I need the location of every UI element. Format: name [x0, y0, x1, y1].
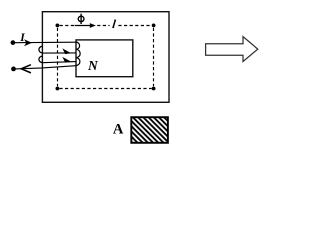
coil window bump 3: [76, 58, 80, 66]
coil outer arc 1: [39, 46, 43, 53]
terminal dot top: [11, 40, 16, 45]
flux direction arrow: [75, 25, 91, 27]
terminal dot bottom: [11, 67, 16, 72]
wire: coil turn 2: [43, 52, 77, 54]
wire: output lead bottom: [15, 66, 76, 69]
arrowhead turn 2: [62, 48, 71, 54]
label l (mean path length): [111, 17, 117, 31]
mean flux path dashed rectangle: [58, 26, 154, 89]
wire: input lead top: [15, 41, 77, 44]
node dot top-left of flux path: [56, 24, 60, 28]
current arrow into coil: [24, 39, 32, 46]
phi label: [78, 14, 84, 24]
coil outer arc 2: [39, 56, 43, 63]
node dot bottom-right of flux path: [152, 87, 156, 91]
core window rectangle: [76, 40, 133, 77]
block arrow pointing right: [206, 37, 258, 62]
svg-text:A: A: [113, 121, 124, 137]
coil window bump 2: [76, 49, 80, 57]
arrowhead turn 3: [62, 57, 71, 63]
node dot top-right of flux path: [152, 24, 156, 28]
coil window bump 1: [76, 42, 80, 49]
core outer rectangle: [42, 12, 169, 103]
current arrow out of coil: [21, 65, 31, 73]
wire: coil turn 3: [43, 62, 77, 63]
svg-text:l: l: [111, 17, 117, 31]
svg-text:I: I: [19, 32, 25, 44]
node dot bottom-left of flux path: [56, 87, 60, 91]
cross-section hatched box: [131, 117, 168, 143]
svg-text:N: N: [87, 58, 99, 73]
